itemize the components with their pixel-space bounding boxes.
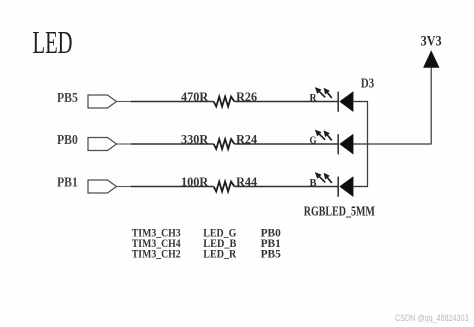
LED D3 red cathode bar (337, 92, 339, 112)
wire R26 to LED R cathode (234, 101, 338, 103)
watermark CSDN (395, 313, 469, 323)
wire PB5 to resistor R26 (131, 101, 214, 103)
svg-text:470R: 470R (181, 89, 209, 104)
label table row TIM3_CH4 LED_B PB1 (132, 236, 281, 250)
LED D3 blue triangle (339, 176, 353, 197)
label table row TIM3_CH3 LED_G PB0 (132, 225, 281, 239)
svg-text:330R: 330R (181, 131, 209, 146)
svg-text:PB1: PB1 (57, 176, 78, 191)
label 330R value (181, 131, 209, 146)
wire PB0 to resistor R24 (131, 143, 214, 145)
port PB5 connector (88, 95, 117, 108)
LED D3 red triangle (339, 91, 353, 112)
wire LED B anode to bus (353, 186, 368, 188)
port PB1 connector (88, 180, 117, 193)
wire PB1 to resistor R44 (131, 186, 214, 188)
node PB5 label (57, 91, 78, 106)
node PB1 label (57, 176, 78, 191)
title LED (33, 25, 73, 60)
LED D3 green triangle (339, 134, 353, 155)
node PB0 label (57, 133, 78, 148)
label B pin name (310, 177, 318, 189)
wire PB1 port lead (117, 186, 132, 188)
wire PB5 port lead (117, 101, 132, 103)
LED D3 green emission arrows (315, 130, 332, 141)
resistor R26 (214, 97, 235, 107)
label D3 designator (361, 77, 375, 92)
LED D3 blue emission arrows (315, 172, 332, 183)
label R24 designator (236, 131, 257, 146)
power net 3V3 label (421, 34, 442, 50)
svg-text:PB0: PB0 (57, 133, 78, 148)
port PB0 connector (88, 138, 117, 151)
LED D3 green cathode bar (337, 134, 339, 154)
svg-text:3V3: 3V3 (421, 34, 442, 50)
svg-text:CSDN @qq_48824303: CSDN @qq_48824303 (395, 313, 469, 323)
svg-text:LED: LED (33, 25, 73, 60)
label table row TIM3_CH2 LED_R PB5 (132, 246, 281, 260)
svg-text:PB5: PB5 (57, 91, 78, 106)
svg-text:G: G (310, 134, 317, 146)
wire LED R anode to bus (353, 101, 368, 103)
label R26 designator (236, 89, 257, 104)
svg-text:100R: 100R (181, 174, 209, 189)
wire R44 to LED B cathode (234, 186, 338, 188)
wire horizontal from LED bus to 3V3 (368, 143, 432, 145)
svg-text:TIM3_CH2: TIM3_CH2 (132, 246, 181, 260)
svg-text:LED_R: LED_R (203, 246, 236, 260)
wire vertical LED anode bus (367, 102, 369, 187)
wire R24 to LED G cathode (234, 143, 338, 145)
wire PB0 port lead (117, 143, 132, 145)
LED D3 red emission arrows (315, 87, 332, 98)
label RGBLED_5MM part value (304, 204, 375, 219)
wire LED G anode to bus (353, 143, 368, 145)
LED D3 blue cathode bar (337, 177, 339, 197)
svg-text:B: B (310, 177, 318, 189)
label G pin name (310, 134, 317, 146)
power symbol 3V3 arrow (423, 50, 439, 68)
svg-text:R: R (310, 92, 318, 104)
label 100R value (181, 174, 209, 189)
svg-text:RGBLED_5MM: RGBLED_5MM (304, 204, 375, 219)
label R44 designator (236, 174, 257, 189)
svg-text:D3: D3 (361, 77, 375, 92)
resistor R44 (214, 182, 235, 192)
label R pin name (310, 92, 318, 104)
resistor R24 (214, 139, 235, 149)
svg-text:PB5: PB5 (261, 246, 281, 260)
wire 3V3 stem down to row2 (430, 68, 432, 145)
label 470R value (181, 89, 209, 104)
